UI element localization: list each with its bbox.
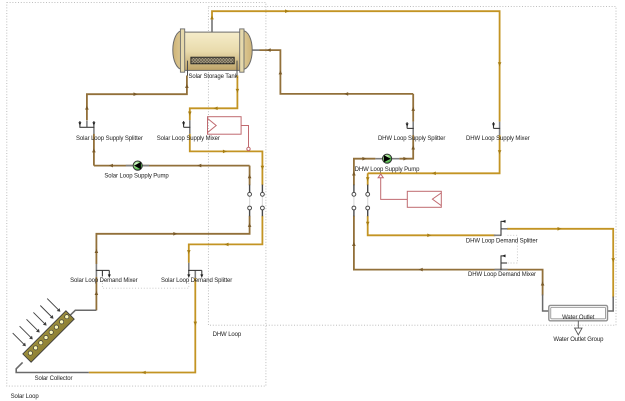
controller U2: pink controller near DHW pump (378, 174, 441, 207)
wire: golden pipe below solar supply mixer to right drop (190, 134, 263, 186)
mixer: Solar Loop Demand Mixer symbol (96, 264, 109, 277)
arrow up below DHW splitter (411, 145, 415, 149)
mixer: DHW Loop Supply Mixer symbol (494, 122, 501, 135)
wire: tan pipe splitter-to-tank (solar supply splitter output up to tank bottom-left port) (87, 76, 187, 121)
arrow down on x=262.4 drop (261, 166, 265, 170)
arrow up above tank top port (210, 15, 214, 19)
arrow up on DHW splitter riser (411, 107, 415, 111)
mixer: Solar Loop Supply Mixer symbol (184, 120, 191, 134)
wire: tan pipe DHW supply splitter riser (above splitter) (412, 94, 414, 122)
svg-text:DHW Loop Demand Splitter: DHW Loop Demand Splitter (466, 239, 538, 245)
arrow right on pump-to-corner stub (403, 157, 407, 161)
mixer: DHW Loop Demand Mixer symbol (495, 255, 508, 270)
arrow down on DHW mixer drop (498, 62, 502, 66)
wire: gray stub tank right port (252, 49, 260, 51)
svg-text:Solar Collector: Solar Collector (35, 376, 73, 382)
arrow down on tank bottom-right drop (236, 89, 240, 93)
water outlet group arrow below (577, 321, 579, 328)
svg-text:DHW Loop Supply Splitter: DHW Loop Supply Splitter (378, 136, 445, 142)
wire: gray elbow into water outlet right port (608, 297, 614, 312)
wire: golden drop at x=367.7 upper part (367, 173, 369, 185)
wire: golden pipe below DHW supply mixer to left run (368, 135, 500, 173)
connector: gray stubs + circles on x=353.9 riser (352, 185, 356, 217)
connector: gray stubs + circles on x=367.7 drop (366, 185, 370, 217)
water outlet: Water Outlet block (549, 305, 608, 320)
arrow down on water outlet right riser (611, 258, 615, 262)
connector: gray stubs + circles on x=249.6 riser (248, 185, 252, 217)
arrow up on splitter input (92, 148, 96, 152)
arrow left on y=173.3 run (432, 172, 436, 176)
wire: tan pipe DHW splitter to pump corner (399, 135, 413, 159)
arrow down on lower drop (366, 222, 370, 226)
sun rays hitting the collector (13, 299, 60, 346)
arrow right toward DHW pump (362, 157, 366, 161)
splitter: DHW Loop Supply Splitter symbol (407, 122, 414, 135)
svg-text:DHW Loop Supply Pump: DHW Loop Supply Pump (355, 167, 420, 173)
heat exchanger coil inside tank (188, 61, 238, 76)
wire: tan pipe solar supply splitter input (from pump line up) (93, 134, 95, 166)
arrow down above solar demand splitter (187, 250, 191, 254)
svg-text:Solar Loop Supply Splitter: Solar Loop Supply Splitter (76, 136, 143, 142)
svg-text:Solar Loop Supply Pump: Solar Loop Supply Pump (104, 174, 169, 180)
wire: tan pipe DHW-to-tank-right (upper) (260, 50, 414, 94)
wire: gray elbow into water outlet left port (543, 295, 549, 312)
arrow up on DHW return riser (352, 242, 356, 246)
wire: gray run into collector bottom port (16, 362, 89, 372)
wire: tan pipe DHW pump feed line (354, 159, 376, 186)
arrow up between collector and demand mixer (95, 291, 99, 295)
splitter: Solar Loop Demand Splitter symbol (188, 263, 202, 278)
svg-text:Solar Loop Demand Mixer: Solar Loop Demand Mixer (70, 278, 138, 284)
arrow up on DHW feed riser (352, 171, 356, 175)
wire: tan solar pump line (94, 165, 250, 167)
arrow right on splitter-to-tank horizontal (134, 92, 138, 96)
arrow up on water outlet left riser (541, 281, 545, 285)
svg-text:DHW Loop Supply Mixer: DHW Loop Supply Mixer (466, 136, 530, 142)
wire: gray elbow from collector top port (71, 310, 97, 315)
arrow up on tank-entry vertical (185, 84, 189, 88)
arrow left on pump line (left of pump) (109, 164, 113, 168)
svg-text:Water Outlet: Water Outlet (562, 315, 595, 321)
wire: tan pipe right riser lower part to corner and left to demand mixer riser (96, 216, 249, 264)
arrow right on y=233.8 horizontal (173, 232, 177, 236)
arrow left on y=93.9 horizontal (344, 92, 348, 96)
arrow left on y=269.6 horizontal (419, 268, 423, 272)
wire: golden pipe lower x=262.4 drop to solar demand splitter (189, 216, 263, 263)
wire: tan pipe right riser down from pump line (x=249.6) (249, 166, 251, 186)
arrow up on demand mixer riser above mixer (95, 249, 99, 253)
group box: Solar Loop dashed boundary (7, 2, 266, 386)
splitter: Solar Loop Supply Splitter symbol (79, 121, 94, 134)
controller U1: pink controller near solar supply mixer (208, 117, 251, 151)
tank: Solar Storage Tank (173, 29, 252, 76)
arrow up on splitter-to-tank vertical (85, 105, 89, 109)
arrow right on top golden run (285, 9, 289, 13)
arrow down above solar supply mixer (188, 112, 192, 116)
wire: golden pipe tank top to DHW supply mixer (212, 11, 500, 121)
wire: tan pipe collector-to-demand-mixer (95, 277, 97, 311)
pump: Solar Loop Supply Pump (126, 161, 149, 170)
svg-text:Solar Loop: Solar Loop (11, 394, 40, 400)
wire: tan pipe DHW return from water outlet (354, 216, 543, 296)
svg-text:Water Outlet Group: Water Outlet Group (553, 337, 604, 343)
arrow left on y=108.3 run (213, 107, 217, 111)
arrow right on y=235.3 run (427, 234, 431, 238)
arrow down at x=367.7 drop (366, 177, 370, 181)
arrow left on bottom run (142, 371, 146, 375)
svg-text:DHW Loop Demand Mixer: DHW Loop Demand Mixer (468, 272, 536, 278)
arrow down on splitter output drop (194, 322, 198, 326)
svg-text:Solar Loop Supply Mixer: Solar Loop Supply Mixer (157, 136, 220, 142)
arrow right on y=151.4 run (223, 150, 227, 154)
splitter: DHW Loop Demand Splitter symbol (494, 221, 508, 236)
pump: DHW Loop Supply Pump (375, 154, 399, 163)
wire: golden pipe tank bottom-right to solar supply mixer (190, 76, 238, 121)
dotted link between solar demand mixer and solar demand splitter (102, 277, 188, 288)
wire: gray stub tank top port (211, 20, 213, 33)
group box: DHW Loop dashed boundary (208, 7, 616, 326)
arrow up on x=280.4 riser (279, 70, 283, 74)
dotted link between DHW demand splitter and mixer (507, 235, 517, 263)
arrow up on lower right riser (248, 223, 252, 227)
arrow down below DHW supply mixer (498, 150, 502, 154)
svg-text:Solar Storage Tank: Solar Storage Tank (188, 74, 238, 80)
svg-text:DHW Loop: DHW Loop (213, 332, 242, 338)
collector: Solar Collector panel (23, 311, 74, 362)
arrow up on right riser top (248, 174, 252, 178)
arrow left on pump line (right of pump) (197, 164, 201, 168)
svg-text:Solar Loop Demand Splitter: Solar Loop Demand Splitter (161, 278, 232, 284)
wire: golden drop lower part to DHW demand splitter (368, 216, 496, 236)
arrow right on splitter output run (558, 227, 562, 231)
wire: golden pipe solar demand splitter output to collector bottom (89, 278, 196, 373)
wire: golden pipe DHW demand splitter output to water outlet right port (507, 229, 613, 298)
connector: gray stubs + circles on x=262.4 drop (261, 185, 265, 217)
arrow left on y=244.4 run (224, 243, 228, 247)
arrow left on y=50.1 into tank (267, 48, 271, 52)
